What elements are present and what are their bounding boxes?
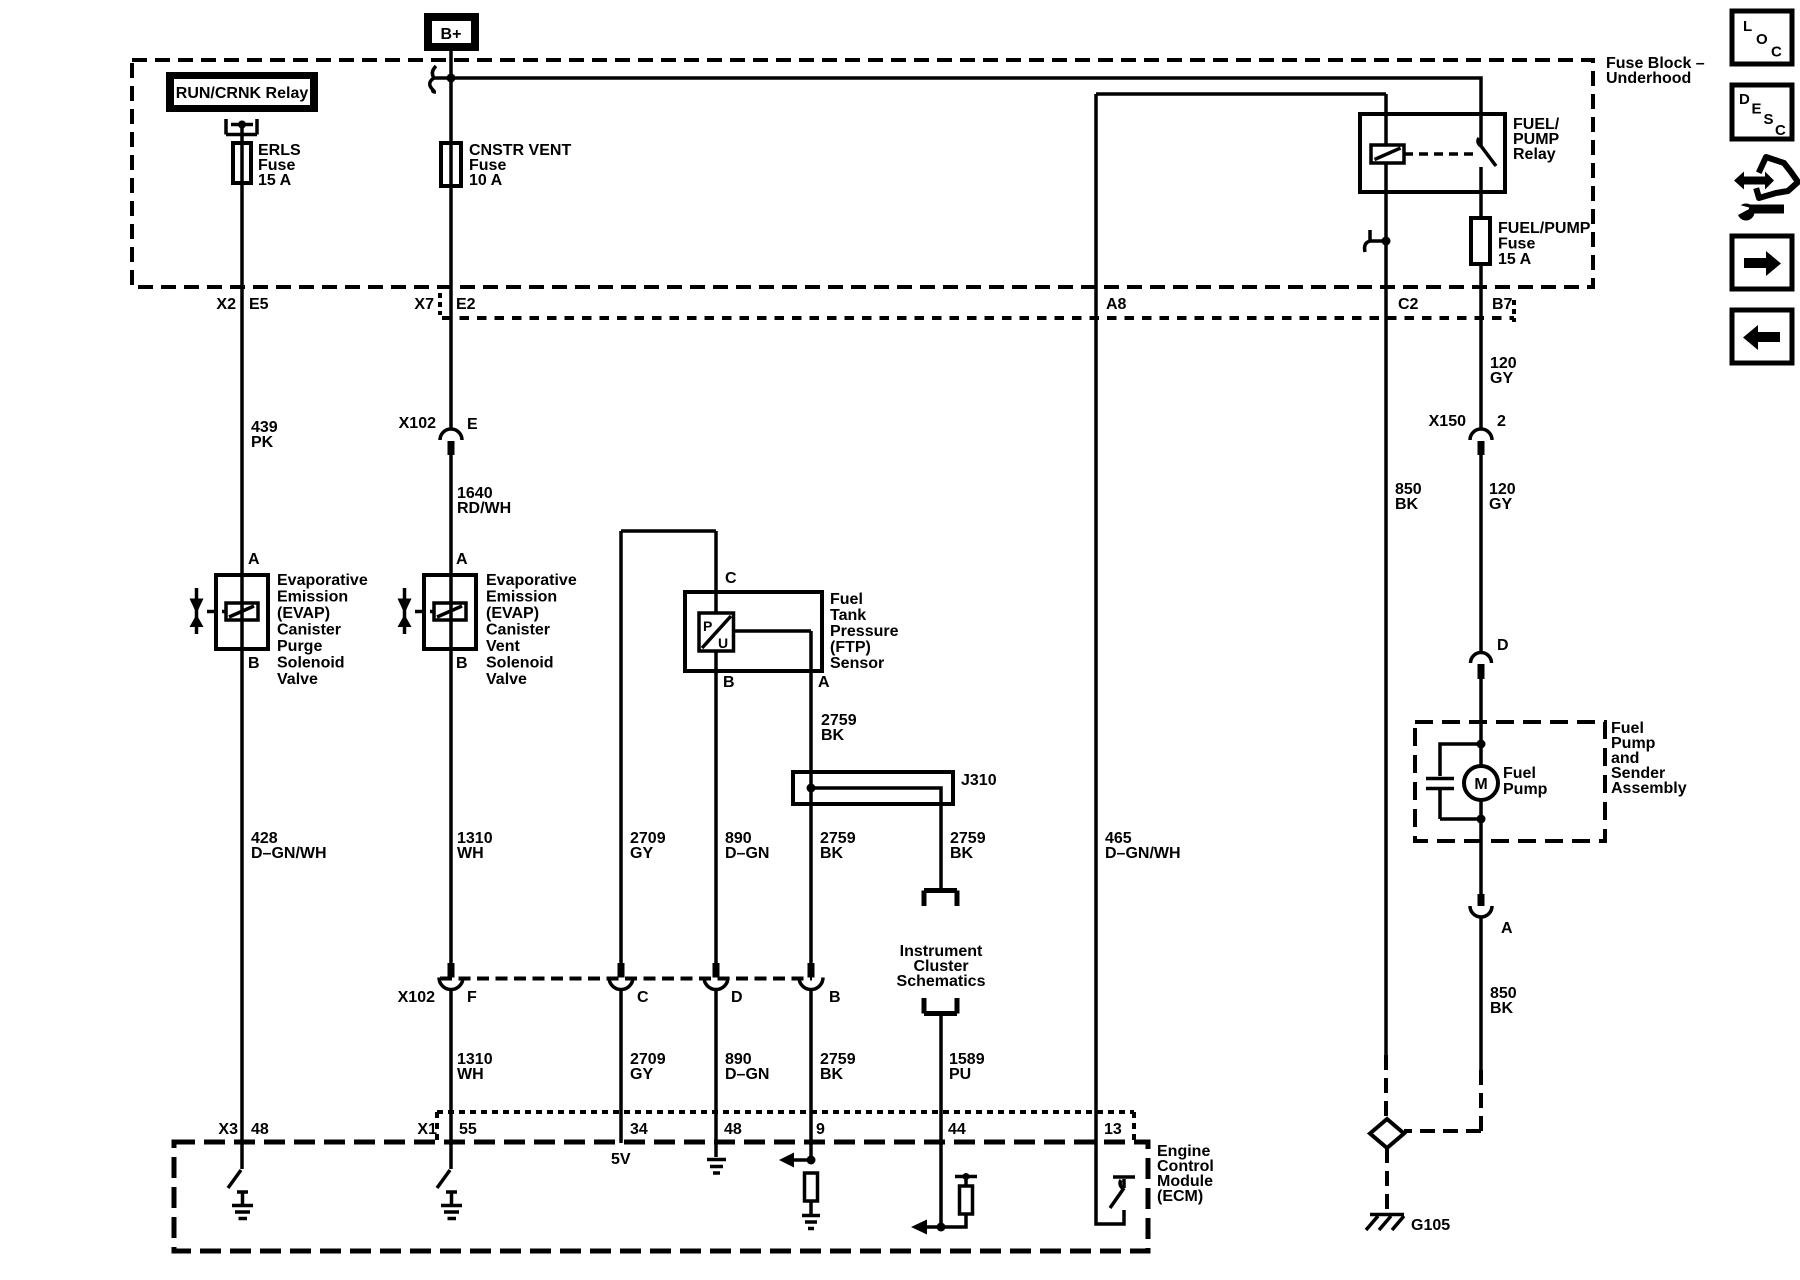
- svg-text:(EVAP): (EVAP): [277, 605, 330, 622]
- wire 890 D-GN lower: [714, 989, 718, 1157]
- splice J310 box: [793, 772, 953, 804]
- relay coil: [1384, 94, 1388, 145]
- connector X102 F: [439, 963, 463, 990]
- svg-text:Valve: Valve: [486, 671, 527, 688]
- ground ECM X1-55: [441, 1191, 462, 1219]
- wire dashed splice to G105: [1385, 1148, 1389, 1213]
- svg-text:WH: WH: [457, 845, 484, 862]
- svg-text:Valve: Valve: [277, 671, 318, 688]
- ground ECM X3-48: [232, 1191, 253, 1219]
- ground G105: [1366, 1215, 1404, 1231]
- ECM pin 44 input network: [911, 1173, 977, 1235]
- svg-text:B: B: [248, 655, 260, 672]
- svg-text:Pump: Pump: [1503, 781, 1548, 798]
- svg-text:Relay: Relay: [1513, 146, 1556, 163]
- svg-text:X7: X7: [414, 296, 434, 313]
- svg-text:C: C: [637, 989, 649, 1006]
- ECM pin X3-48 driver switch: [240, 1142, 244, 1169]
- svg-text:34: 34: [630, 1121, 648, 1138]
- svg-text:Tank: Tank: [830, 607, 866, 624]
- B+ power symbol: [424, 13, 479, 51]
- svg-text:Canister: Canister: [486, 622, 550, 639]
- wire D to fuel pump: [1479, 679, 1483, 766]
- svg-text:X3: X3: [218, 1121, 238, 1138]
- valve EVAP canister purge solenoid: [190, 575, 269, 649]
- svg-text:9: 9: [816, 1121, 825, 1138]
- node fuel pump bottom junction: [1477, 815, 1486, 824]
- svg-text:Underhood: Underhood: [1606, 70, 1691, 87]
- svg-text:C: C: [1775, 122, 1786, 139]
- off-page bracket lower: [924, 998, 957, 1014]
- connector X102 B: [799, 963, 823, 990]
- wire relay switch to FUEL/PUMP fuse: [1479, 167, 1483, 218]
- svg-text:GY: GY: [630, 845, 653, 862]
- svg-text:PU: PU: [949, 1066, 971, 1083]
- svg-text:10 A: 10 A: [469, 172, 503, 189]
- wire motor to connector A: [1479, 800, 1483, 894]
- svg-text:RUN/CRNK Relay: RUN/CRNK Relay: [176, 85, 309, 102]
- wire CNSTR VENT fuse to X7-E2: [449, 186, 453, 287]
- svg-text:BK: BK: [1490, 1000, 1514, 1017]
- svg-text:(FTP): (FTP): [830, 639, 871, 656]
- svg-text:Solenoid: Solenoid: [277, 655, 345, 672]
- wire relay coil to C2: [1384, 163, 1388, 287]
- relay FUEL/PUMP box: [1360, 114, 1505, 192]
- wire dashed 850 BK to splice: [1404, 1070, 1481, 1131]
- svg-text:E5: E5: [249, 296, 269, 313]
- svg-text:(ECM): (ECM): [1157, 1188, 1203, 1205]
- wire B+ rail to relay switch: [451, 78, 1481, 146]
- wire relay to ERLS fuse: [240, 125, 244, 144]
- connector A fuel pump: [1470, 894, 1492, 917]
- RUN/CRNK relay output terminal: [226, 119, 257, 135]
- svg-text:Assembly: Assembly: [1611, 780, 1687, 797]
- ECM pin 13 low-side driver: [1096, 1142, 1135, 1224]
- svg-text:48: 48: [724, 1121, 742, 1138]
- svg-text:D–GN/WH: D–GN/WH: [1105, 845, 1181, 862]
- svg-text:L: L: [1743, 18, 1752, 35]
- wire FTP B 890 D-GN: [714, 651, 718, 963]
- connector X150 pin 2: [1470, 429, 1492, 455]
- connector brace at B+ feed: [430, 66, 451, 92]
- sensor FTP box: [685, 592, 822, 671]
- svg-text:44: 44: [948, 1121, 966, 1138]
- wire J310 branch to instrument cluster: [811, 788, 941, 888]
- svg-text:E: E: [467, 416, 478, 433]
- svg-text:A: A: [248, 551, 260, 568]
- svg-text:F: F: [467, 989, 477, 1006]
- icon LOC: [1732, 11, 1792, 64]
- wire 1589 PU: [939, 1014, 943, 1228]
- svg-text:BK: BK: [820, 1066, 844, 1083]
- wire 1310 WH upper: [449, 649, 453, 963]
- svg-text:O: O: [1756, 31, 1768, 48]
- svg-text:C2: C2: [1398, 296, 1419, 313]
- svg-text:Evaporative: Evaporative: [277, 572, 368, 589]
- fuse FUEL/PUMP 15A: [1471, 218, 1490, 264]
- svg-text:X2: X2: [216, 296, 236, 313]
- fuse ERLS 15A: [240, 143, 244, 183]
- svg-text:B+: B+: [441, 26, 462, 43]
- svg-text:B: B: [829, 989, 841, 1006]
- svg-text:Sensor: Sensor: [830, 655, 884, 672]
- svg-text:Emission: Emission: [486, 589, 557, 606]
- connector boundary dashed line: [438, 293, 442, 315]
- connector X102 row dashed line: [440, 977, 812, 981]
- svg-text:Evaporative: Evaporative: [486, 572, 577, 589]
- FTP sensor feed wire 2709 GY: [621, 531, 716, 963]
- svg-text:D–GN: D–GN: [725, 845, 769, 862]
- relay linkage dashed: [1404, 152, 1477, 156]
- svg-text:FUEL/PUMP: FUEL/PUMP: [1498, 220, 1591, 237]
- node J310 junction: [807, 784, 816, 793]
- svg-text:GY: GY: [1490, 370, 1513, 387]
- RUN/CRNK Relay badge: [166, 72, 318, 112]
- svg-text:D–GN/WH: D–GN/WH: [251, 845, 327, 862]
- wire FUEL/PUMP fuse to B7: [1479, 264, 1483, 287]
- svg-text:BK: BK: [950, 845, 974, 862]
- ECM dashed box: [174, 1142, 1148, 1251]
- svg-text:P: P: [703, 618, 712, 634]
- svg-text:X102: X102: [399, 415, 436, 432]
- pin C FTP: [714, 531, 718, 613]
- svg-text:D: D: [1739, 91, 1750, 108]
- node fuel pump top junction: [1477, 740, 1486, 749]
- svg-text:B: B: [456, 655, 468, 672]
- svg-text:A: A: [818, 674, 830, 691]
- svg-text:D: D: [1497, 637, 1509, 654]
- svg-text:BK: BK: [821, 727, 845, 744]
- wire 120 GY X150 to D: [1479, 455, 1483, 652]
- svg-text:GY: GY: [1489, 496, 1512, 513]
- svg-text:E: E: [1752, 101, 1762, 118]
- wire 120 GY B7 to X150: [1479, 287, 1483, 429]
- ground ECM pin 48: [707, 1160, 726, 1174]
- svg-text:Pressure: Pressure: [830, 623, 899, 640]
- wire 1640 RD/WH: [449, 455, 453, 649]
- icon compare wrench: [1734, 157, 1798, 221]
- svg-text:2: 2: [1497, 413, 1506, 430]
- svg-text:X102: X102: [398, 989, 435, 1006]
- svg-text:Fuel: Fuel: [1503, 765, 1536, 782]
- fuse CNSTR VENT 10A: [449, 143, 453, 186]
- svg-text:A: A: [456, 551, 468, 568]
- icon DESC: [1732, 85, 1792, 139]
- motor fuel pump: [1464, 766, 1498, 800]
- svg-text:GY: GY: [630, 1066, 653, 1083]
- svg-text:Canister: Canister: [277, 622, 341, 639]
- fuel pump and sender assembly dashed box: [1415, 722, 1605, 841]
- svg-text:B: B: [723, 674, 735, 691]
- svg-text:X1: X1: [417, 1121, 437, 1138]
- valve EVAP canister vent solenoid: [398, 575, 477, 649]
- svg-text:WH: WH: [457, 1066, 484, 1083]
- svg-text:15 A: 15 A: [1498, 251, 1532, 268]
- relay switch contact: [1481, 146, 1496, 166]
- svg-text:Solenoid: Solenoid: [486, 655, 554, 672]
- svg-text:C: C: [1771, 44, 1782, 61]
- wire 2709 GY lower: [619, 989, 623, 1143]
- svg-text:U: U: [718, 635, 728, 651]
- svg-text:Schematics: Schematics: [897, 973, 986, 990]
- svg-text:55: 55: [459, 1121, 477, 1138]
- svg-text:5V: 5V: [611, 1151, 631, 1168]
- svg-text:D: D: [731, 989, 743, 1006]
- wire 2759 BK lower: [809, 989, 813, 1160]
- wire FTP A 2759 BK: [733, 631, 811, 963]
- svg-text:13: 13: [1104, 1121, 1122, 1138]
- svg-text:X150: X150: [1429, 413, 1466, 430]
- svg-text:Fuse: Fuse: [1498, 236, 1535, 253]
- fuse block underhood dashed box: [132, 60, 1593, 287]
- wire 1310 WH lower: [449, 989, 453, 1142]
- svg-text:B7: B7: [1492, 296, 1513, 313]
- wire 428 D-GN/WH: [240, 649, 244, 1142]
- svg-text:A: A: [1501, 920, 1513, 937]
- svg-text:BK: BK: [820, 845, 844, 862]
- svg-text:Purge: Purge: [277, 638, 322, 655]
- wire 439 PK: [240, 287, 244, 649]
- splice diamond: [1370, 1119, 1404, 1148]
- svg-text:G105: G105: [1411, 1217, 1450, 1234]
- off-page bracket upper: [924, 891, 957, 907]
- ECM pin 9 input network: [779, 1153, 820, 1229]
- wire 850 BK fuel pump return: [1479, 918, 1483, 1070]
- wire B+ down to CNSTR VENT fuse: [449, 51, 453, 143]
- svg-text:Fuel: Fuel: [830, 591, 863, 608]
- svg-text:BK: BK: [1395, 496, 1419, 513]
- connector X1 dotted row: [437, 1110, 1134, 1114]
- svg-text:S: S: [1764, 111, 1774, 128]
- svg-text:48: 48: [251, 1121, 269, 1138]
- svg-text:J310: J310: [961, 772, 997, 789]
- capacitor suppressor: [1426, 744, 1481, 819]
- icon arrow left: [1732, 310, 1792, 363]
- wire A8 riser to relay coil: [1096, 94, 1386, 1142]
- svg-text:C: C: [725, 570, 737, 587]
- connector X102 D: [704, 963, 728, 990]
- connector X102 E: [440, 287, 462, 455]
- splice hook at relay coil ground wire: [1365, 230, 1391, 252]
- svg-text:D–GN: D–GN: [725, 1066, 769, 1083]
- svg-text:A8: A8: [1106, 296, 1127, 313]
- wire relay coil ground 850 BK: [1384, 287, 1388, 1055]
- connector D fuel pump: [1471, 653, 1492, 680]
- connector X102 C: [609, 963, 633, 990]
- svg-text:Emission: Emission: [277, 589, 348, 606]
- P/U transducer symbol: [699, 613, 734, 651]
- svg-text:M: M: [1474, 776, 1487, 793]
- wire ERLS fuse to X2-E5: [240, 183, 244, 287]
- node B+ junction: [447, 74, 456, 83]
- svg-text:E2: E2: [456, 296, 476, 313]
- ECM pin X1-55 driver switch: [449, 1142, 453, 1169]
- svg-text:RD/WH: RD/WH: [457, 500, 511, 517]
- svg-text:Vent: Vent: [486, 638, 520, 655]
- icon arrow right: [1732, 236, 1792, 289]
- svg-text:(EVAP): (EVAP): [486, 605, 539, 622]
- svg-text:15 A: 15 A: [258, 172, 292, 189]
- svg-text:PK: PK: [251, 434, 274, 451]
